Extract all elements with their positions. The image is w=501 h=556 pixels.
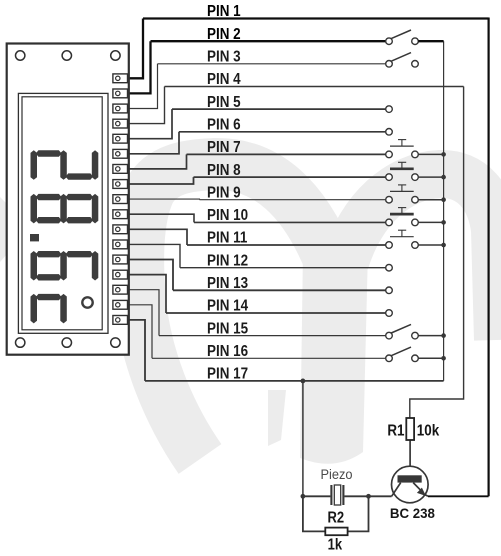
lcd decimal point — [30, 234, 39, 241]
junction dot — [441, 243, 446, 248]
junction dot — [441, 197, 446, 202]
switch on PIN 15 — [386, 324, 419, 339]
svg-text:PIN 2: PIN 2 — [207, 26, 241, 43]
lcd degree symbol — [82, 297, 92, 307]
wire PIN 10 button to bus — [418, 221, 443, 223]
node PIN 5 open terminal — [386, 106, 393, 113]
pad 13 — [113, 255, 128, 264]
mounting hole — [62, 338, 71, 347]
node piezo left junction — [301, 494, 306, 499]
wire right edge (PIN1 rail) — [488, 18, 490, 497]
lcd digit 6 — [31, 251, 99, 281]
wire PIN 17 (pad to line) — [129, 320, 145, 381]
wire PIN 3 (pad to line) — [129, 64, 158, 109]
wire PIN 4 line — [165, 86, 464, 88]
wire PIN 16 (pad to line) — [129, 305, 152, 359]
wire bus B (PIN4 to R1) — [410, 87, 464, 419]
node PIN 12 open terminal — [386, 264, 393, 271]
display window outer — [18, 93, 108, 333]
svg-text:PIN 11: PIN 11 — [207, 230, 247, 247]
svg-text:BC 238: BC 238 — [390, 505, 435, 520]
wire PIN 1 (pad to line) — [129, 19, 143, 79]
pad 17 — [113, 316, 128, 325]
svg-text:PIN 6: PIN 6 — [207, 117, 241, 134]
lcd digit 2 (bottom, partial) — [31, 294, 67, 324]
wire PIN 11 button to bus — [418, 244, 443, 246]
wire PIN 15 (pad to line) — [129, 290, 159, 336]
wire PIN 13 line — [173, 289, 386, 291]
mounting hole — [16, 51, 25, 60]
svg-text:PIN 17: PIN 17 — [207, 366, 248, 383]
piezo element — [331, 485, 343, 505]
wire PIN 5 line — [172, 108, 386, 110]
svg-text:R1: R1 — [387, 423, 404, 440]
svg-text:PIN 15: PIN 15 — [207, 320, 248, 337]
svg-text:PIN 1: PIN 1 — [207, 3, 241, 20]
wire PIN 2 line — [151, 40, 386, 42]
pushbutton on PIN 11 — [386, 230, 419, 248]
wire PIN 3 line — [158, 63, 386, 65]
pad 8 — [113, 180, 128, 189]
node piezo right junction — [366, 494, 371, 499]
pad 3 — [113, 104, 128, 113]
node PIN 6 open terminal — [386, 129, 393, 136]
wire PIN 14 line — [166, 312, 386, 314]
watermark wedge bottom — [268, 390, 286, 446]
pad 10 — [113, 210, 128, 219]
pad 9 — [113, 195, 128, 204]
pushbutton on PIN 8 — [386, 162, 419, 180]
wire PIN 11 (pad to line) — [129, 229, 187, 245]
wire PIN 7 button to bus — [418, 153, 443, 155]
wire bottom rail left — [303, 495, 331, 497]
pad 1 — [113, 74, 128, 83]
pad 14 — [113, 270, 128, 279]
wire PIN 10 line — [194, 221, 386, 223]
svg-text:R2: R2 — [327, 510, 344, 527]
wire emitter to right rail — [428, 495, 489, 497]
wire PIN 7 (pad to line) — [129, 154, 187, 169]
wire PIN 11 line — [187, 244, 386, 246]
wire PIN 15 switch to bus — [418, 335, 443, 337]
wire PIN 16 line — [152, 357, 386, 359]
wire PIN 8 (pad to line) — [129, 177, 194, 184]
pad 2 — [113, 89, 128, 98]
mounting hole — [16, 338, 25, 347]
junction dot — [441, 333, 446, 338]
wire PIN 2 switch to bus — [418, 40, 443, 42]
lcd digit 8 — [31, 194, 99, 224]
pad 16 — [113, 300, 128, 309]
watermark arch right — [345, 174, 498, 340]
resistor R2 — [325, 528, 347, 536]
pushbutton on PIN 9 — [386, 185, 419, 203]
wire bottom rail mid — [344, 495, 391, 497]
wire PIN 8 button to bus — [418, 176, 443, 178]
junction dot — [441, 356, 446, 361]
switch on PIN 2 — [386, 30, 419, 45]
display module board — [7, 44, 129, 355]
switch on PIN 16 — [386, 347, 419, 362]
wire PIN 9 (pad to line) — [129, 198, 200, 201]
wire PIN 13 (pad to line) — [129, 260, 173, 291]
wire PIN 12 line — [180, 267, 386, 269]
wire PIN 2 (pad to line) — [129, 41, 151, 93]
pad 4 — [113, 119, 128, 128]
watermark arch left with tail — [138, 164, 330, 459]
wire PIN 7 line — [187, 153, 386, 155]
switch on PIN 3 — [386, 53, 419, 68]
resistor R1 — [406, 418, 414, 440]
pad 11 — [113, 225, 128, 234]
wire PIN 10 (pad to line) — [129, 214, 194, 222]
wire PIN 6 line — [179, 131, 386, 133]
svg-text:PIN 9: PIN 9 — [207, 184, 241, 201]
wire PIN 17 line — [145, 380, 444, 382]
wire R2 loop — [303, 496, 325, 531]
pad 7 — [113, 165, 128, 174]
wire bus A (switch common) — [443, 41, 445, 381]
svg-text:PIN 10: PIN 10 — [207, 207, 248, 224]
svg-text:PIN 3: PIN 3 — [207, 49, 241, 66]
junction dot — [441, 175, 446, 180]
lcd digit 2 (top) — [31, 150, 99, 180]
node PIN 13 open terminal — [386, 287, 393, 294]
mounting hole — [62, 51, 71, 60]
node PIN 14 open terminal — [386, 310, 393, 317]
pushbutton on PIN 7 — [386, 140, 419, 158]
wire PIN 5 (pad to line) — [129, 109, 172, 139]
svg-text:PIN 4: PIN 4 — [207, 71, 241, 88]
wire PIN 8 line — [194, 176, 386, 178]
svg-text:PIN 13: PIN 13 — [207, 275, 248, 292]
pad 15 — [113, 285, 128, 294]
wire PIN 4 (pad to line) — [129, 87, 165, 124]
wire PIN 12 (pad to line) — [129, 244, 180, 267]
node PIN17 junction — [301, 379, 306, 384]
display window inner — [22, 97, 102, 330]
wire PIN 6 (pad to line) — [129, 132, 179, 154]
svg-text:PIN 14: PIN 14 — [207, 298, 249, 315]
svg-text:Piezo: Piezo — [320, 467, 352, 482]
pad 5 — [113, 134, 128, 143]
junction dot — [441, 152, 446, 157]
wire PIN 14 (pad to line) — [129, 275, 166, 313]
watermark sliver left edge — [0, 197, 7, 262]
wire R1 to collector — [409, 440, 411, 475]
wire PIN 9 line — [200, 199, 386, 201]
svg-text:PIN 7: PIN 7 — [207, 139, 241, 156]
svg-text:PIN 16: PIN 16 — [207, 343, 248, 360]
watermark stem — [300, 250, 368, 464]
wire PIN17 drop to piezo rail — [302, 381, 304, 496]
transistor Q1 BC238 — [392, 466, 429, 503]
svg-text:PIN 8: PIN 8 — [207, 162, 241, 179]
wire PIN 16 switch to bus — [418, 357, 443, 359]
pad 12 — [113, 240, 128, 249]
junction dot — [441, 220, 446, 225]
wire PIN 15 line — [159, 335, 386, 337]
svg-text:10k: 10k — [417, 423, 440, 440]
svg-text:PIN 12: PIN 12 — [207, 252, 248, 269]
svg-text:1k: 1k — [328, 537, 343, 554]
wire PIN 1 line — [143, 17, 489, 19]
mounting hole — [111, 338, 120, 347]
mounting hole — [111, 51, 120, 60]
pushbutton on PIN 10 — [386, 208, 419, 226]
wire PIN 9 button to bus — [418, 199, 443, 201]
svg-text:PIN 5: PIN 5 — [207, 94, 241, 111]
pad 6 — [113, 149, 128, 158]
